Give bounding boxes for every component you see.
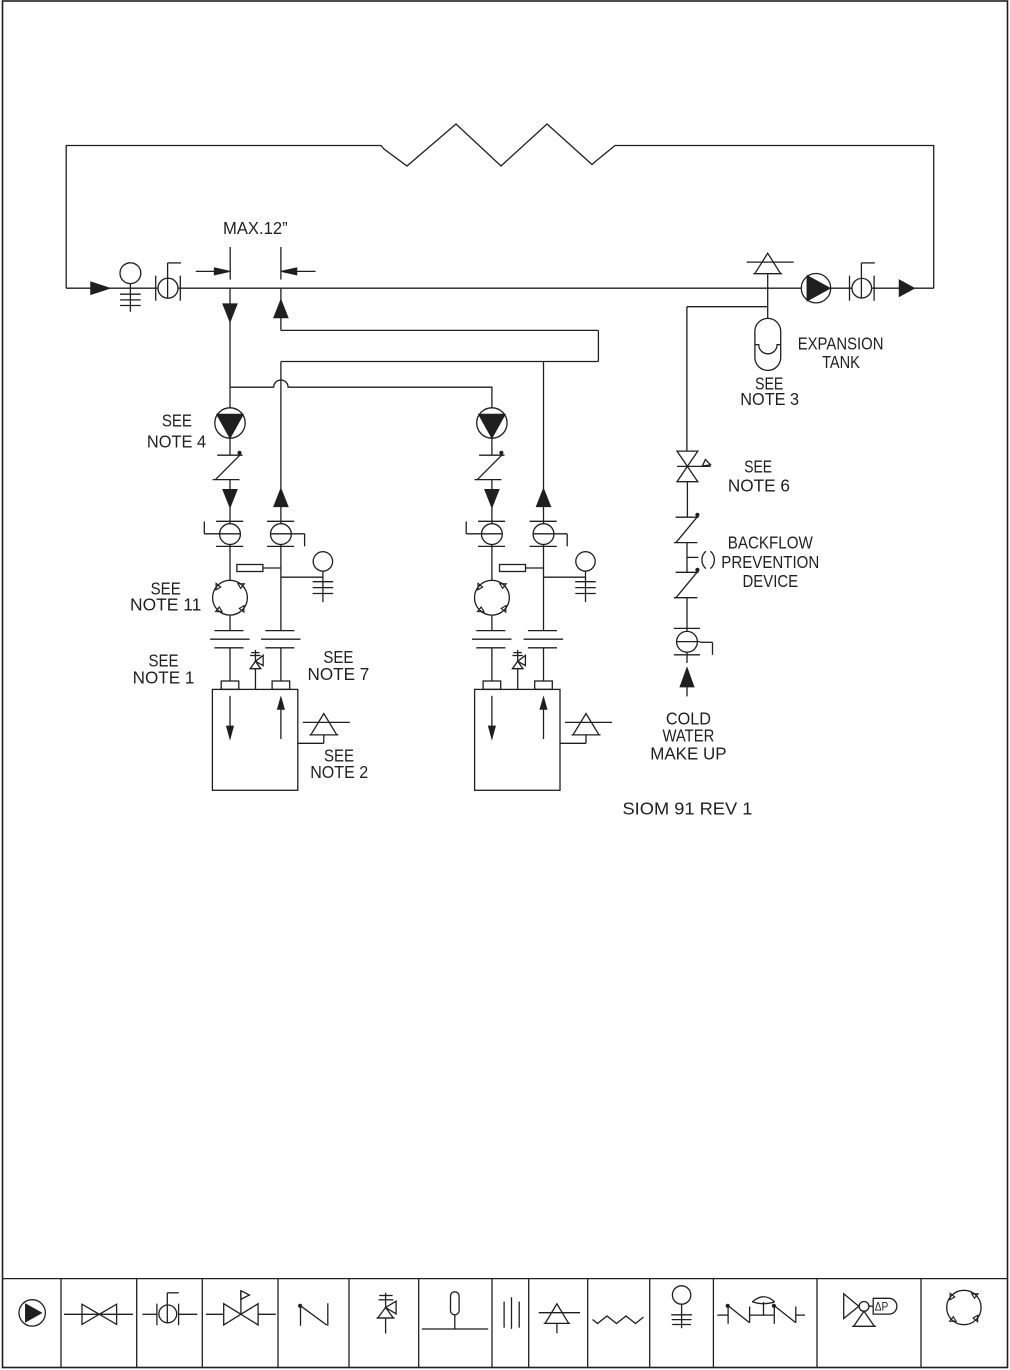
svg-text:SEE: SEE — [744, 457, 772, 477]
svg-text:NOTE 3: NOTE 3 — [740, 389, 799, 409]
svg-text:NOTE 6: NOTE 6 — [728, 475, 790, 495]
svg-text:SIOM 91 REV 1: SIOM 91 REV 1 — [623, 799, 753, 819]
svg-text:WATER: WATER — [662, 725, 714, 745]
svg-text:NOTE 11: NOTE 11 — [130, 594, 201, 614]
svg-text:DEVICE: DEVICE — [743, 571, 799, 591]
svg-text:NOTE 2: NOTE 2 — [310, 762, 368, 782]
svg-text:NOTE 1: NOTE 1 — [133, 667, 195, 687]
svg-text:MAKE UP: MAKE UP — [650, 743, 726, 763]
svg-text:ΔP: ΔP — [875, 1302, 889, 1314]
svg-text:BACKFLOW: BACKFLOW — [728, 533, 813, 553]
svg-text:MAX.12”: MAX.12” — [223, 218, 288, 238]
svg-text:EXPANSION: EXPANSION — [798, 333, 884, 353]
svg-text:NOTE 7: NOTE 7 — [308, 664, 370, 684]
svg-text:SEE: SEE — [162, 411, 192, 431]
svg-text:TANK: TANK — [822, 352, 860, 372]
svg-text:PREVENTION: PREVENTION — [721, 552, 819, 572]
svg-text:NOTE 4: NOTE 4 — [147, 431, 206, 451]
